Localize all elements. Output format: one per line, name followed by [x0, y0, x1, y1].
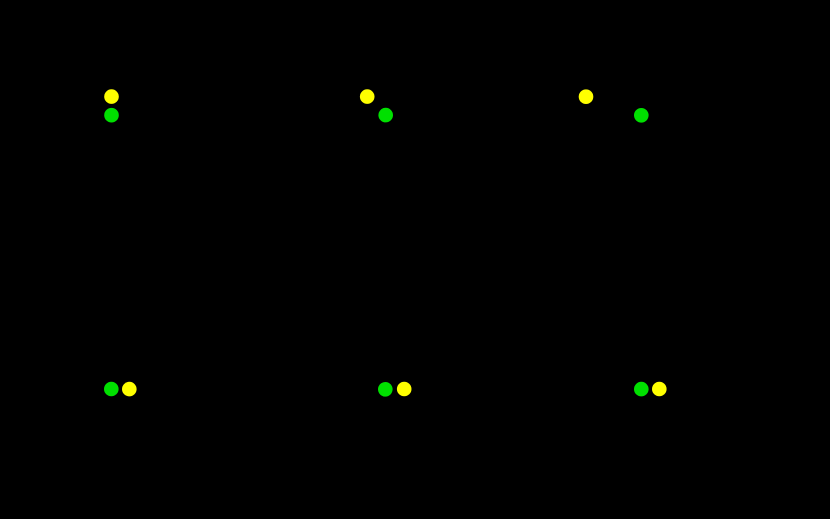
panel 6 green particle	[634, 382, 649, 397]
panel 3 yellow particle	[579, 89, 594, 104]
panel 1 green particle	[104, 108, 119, 123]
panel 5 green particle	[378, 382, 393, 397]
panel 3 green particle	[634, 108, 649, 123]
panel 5 yellow particle	[397, 382, 412, 397]
panel 6 yellow particle	[652, 382, 667, 397]
panel 1 yellow particle	[104, 89, 119, 104]
panel 2 green particle	[378, 108, 393, 123]
panel 4 yellow particle	[122, 382, 137, 397]
panel 2 yellow particle	[360, 89, 375, 104]
panel 4 green particle	[104, 382, 119, 397]
